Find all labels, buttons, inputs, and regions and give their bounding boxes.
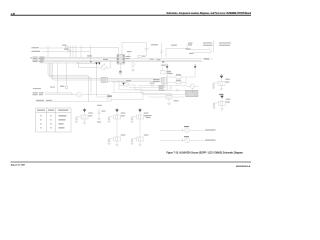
capacitor C4 cluster left of Q7 bbox=[97, 108, 100, 120]
power arrow A5 bbox=[90, 61, 91, 62]
bus D lines bbox=[45, 92, 72, 94]
footer rule bbox=[11, 161, 252, 163]
node stub vertical bbox=[186, 44, 188, 50]
jumper JU3 vertical bbox=[66, 63, 68, 86]
resistor R2 bbox=[167, 81, 186, 83]
transistor Q7 FET cell column1 top bbox=[107, 108, 125, 123]
transistor Q12 bbox=[36, 94, 144, 101]
svg-text:Schematics, Component Location: Schematics, Component Location Diagrams,… bbox=[166, 12, 251, 15]
power arrow A3 bbox=[166, 66, 169, 68]
page number 1-36 bbox=[11, 13, 16, 15]
wire row B bbox=[71, 51, 90, 53]
wire bus drop 4 bbox=[53, 63, 102, 80]
C5 labels bbox=[167, 71, 172, 74]
transistor Q1 bbox=[97, 61, 111, 70]
capacitor C9 on wire bbox=[177, 89, 179, 92]
off-page annotation text group 2 bbox=[219, 42, 231, 45]
header rule bbox=[11, 14, 252, 16]
footer date bbox=[11, 163, 27, 166]
resistor network RN1 hatch bbox=[101, 78, 108, 83]
wire crossing vertical v1 bbox=[70, 46, 72, 58]
verticals below J2 bbox=[166, 93, 168, 96]
LED row 1 bbox=[160, 128, 204, 133]
wire vertical x48 bbox=[47, 46, 49, 57]
label LED1 bbox=[205, 129, 216, 130]
connector P1 hatch right end of bus C bbox=[162, 78, 166, 85]
transistor Q10 FET cell column2 bottom bbox=[130, 135, 148, 147]
IC U1 label bbox=[126, 56, 131, 57]
off-page net labels bbox=[186, 43, 194, 54]
power arrow A4 bbox=[194, 66, 197, 68]
bus A lines left section bbox=[46, 56, 118, 58]
bus C right of RN1 bbox=[108, 78, 163, 80]
resistor labels text bbox=[153, 79, 160, 82]
label LED2 bbox=[205, 140, 216, 141]
wire LED2 left bbox=[160, 139, 185, 141]
LED row 2 bbox=[160, 138, 204, 143]
wire vertical x96.5 bbox=[96, 63, 98, 94]
transistor Q6 FET cell bottom left bbox=[75, 108, 93, 124]
ground G2 bbox=[131, 70, 135, 72]
labels below J2 bbox=[174, 100, 179, 101]
wire R1 to arrow A4 bbox=[186, 76, 195, 78]
capacitor C7 on wire bbox=[160, 86, 162, 89]
svg-text:6816533H01-A: 6816533H01-A bbox=[236, 165, 251, 168]
label right of Q8 bbox=[146, 115, 152, 116]
label smudge2 bbox=[171, 45, 177, 46]
resistor R5 small bbox=[138, 55, 146, 58]
wire vertical x119 bbox=[118, 80, 120, 90]
transistor Q3 bbox=[186, 84, 199, 91]
wire bus drop 1 bbox=[48, 63, 89, 102]
off-page annotation text group 1 bbox=[203, 42, 213, 45]
transistor Q2 mid bbox=[112, 82, 135, 87]
capacitor C6 on wire bbox=[152, 84, 154, 87]
Q12 label bbox=[107, 96, 112, 97]
wire below J2 bbox=[148, 96, 166, 98]
divider line bbox=[213, 41, 215, 53]
capacitor C2 bbox=[145, 43, 149, 57]
bus D labels bbox=[33, 92, 44, 95]
wire LED2 right bbox=[189, 139, 204, 141]
wire corner L2 bbox=[79, 62, 97, 68]
label left of arrow A3 bbox=[161, 65, 166, 66]
ground G1 bbox=[119, 74, 123, 76]
label JU2 bbox=[64, 49, 69, 50]
wire bus drop 5 bbox=[57, 63, 59, 93]
transistor Q8 FET cell column2 top bbox=[130, 108, 148, 123]
power arrow A2 bbox=[122, 83, 124, 85]
Q2 label bbox=[126, 80, 131, 81]
wire crossing vertical v3 bbox=[75, 46, 77, 58]
resistor R1 bbox=[167, 76, 186, 78]
transistor Q9 FET cell column1 bottom bbox=[107, 135, 125, 147]
figure caption bbox=[166, 151, 243, 154]
stray label left area bbox=[33, 88, 41, 89]
table data rows bbox=[40, 115, 66, 128]
wire crossing vertical v4 bbox=[80, 46, 82, 58]
svg-text:Figure 7-15: HLN6432A Secure (: Figure 7-15: HLN6432A Secure (EGPF / LED… bbox=[166, 151, 242, 154]
junction tick LED1 bbox=[181, 129, 183, 132]
bus A right end label bbox=[204, 58, 210, 59]
wire vertical x114 bbox=[113, 82, 115, 92]
bus A left labels bbox=[32, 47, 41, 52]
svg-text:August 24, 2007: August 24, 2007 bbox=[11, 163, 26, 166]
wire column2 down bbox=[139, 119, 141, 137]
wire LED1 left bbox=[160, 129, 185, 131]
label right of arrow A3 bbox=[169, 73, 173, 74]
table header text bbox=[37, 110, 69, 111]
transistor Q5 FET cell right second bbox=[212, 94, 230, 110]
diode D1 bbox=[132, 63, 135, 70]
stray label left area 2 bbox=[50, 87, 55, 88]
wire net stub row B bbox=[42, 51, 66, 53]
transistor Q11 bbox=[77, 92, 111, 97]
junction tick bbox=[71, 93, 73, 95]
jumper JU2 bbox=[67, 50, 71, 53]
wire into J2 second bbox=[112, 91, 143, 93]
wire crossing vertical v2 bbox=[72, 46, 74, 58]
wire corner L1 bbox=[77, 62, 97, 63]
capacitor C8 on wire bbox=[170, 86, 172, 89]
wire row A to IC bbox=[69, 47, 119, 49]
capacitor C1 polarized bbox=[119, 70, 122, 73]
transistor Q4 FET cell top right bbox=[212, 74, 230, 90]
wire crossing vertical v5 bbox=[90, 46, 92, 62]
wire bus drop 3 bbox=[51, 63, 101, 79]
label smudge near top of U1 bbox=[127, 51, 132, 52]
capacitor C5 box bbox=[161, 67, 166, 74]
junction tick LED2 bbox=[181, 139, 183, 142]
node dash left margin bbox=[30, 57, 32, 60]
wire right of R10 bbox=[172, 96, 184, 98]
wire LED1 right bbox=[189, 129, 204, 131]
J2 pin hatch bbox=[186, 90, 199, 97]
wire column1 down bbox=[116, 119, 118, 137]
wire top route to capacitor C2 bbox=[122, 42, 147, 44]
transistor Q13 bbox=[185, 128, 190, 133]
bus A entry ticks bbox=[41, 57, 45, 64]
ground G3 bbox=[167, 104, 171, 106]
footer part number bbox=[236, 165, 251, 168]
jumper JU1 bbox=[65, 46, 69, 49]
capacitor C3 bbox=[160, 43, 163, 58]
resistor pack R10 below J2 bbox=[166, 95, 172, 99]
label NU under Q4 bbox=[219, 94, 224, 95]
jumper JU3 label bbox=[60, 86, 65, 87]
row B end label bbox=[87, 55, 92, 56]
wire y85.3 bbox=[138, 84, 186, 86]
power arrow A6 bbox=[95, 62, 97, 64]
label C2 value bbox=[151, 44, 158, 45]
header title text bbox=[166, 12, 252, 15]
off-page net 2 bbox=[193, 50, 211, 52]
ground G4 bbox=[191, 91, 195, 93]
table TB1 bbox=[36, 108, 72, 132]
wire to off-page nets bbox=[166, 48, 187, 57]
power arrow A1 bbox=[98, 62, 100, 64]
wires Q2 fanout bbox=[129, 87, 166, 89]
cap cluster labels left bbox=[159, 86, 165, 91]
transistor Q14 bbox=[185, 138, 190, 143]
label near x157 bbox=[157, 59, 161, 60]
wire bus drop 2 bbox=[50, 63, 92, 95]
wire into J2 top bbox=[119, 89, 143, 91]
label JU1 bbox=[62, 45, 67, 46]
bus A right section bbox=[125, 58, 203, 60]
label above bus near x150 bbox=[150, 59, 155, 60]
off-page net 1 bbox=[187, 47, 210, 49]
wire label above Q12 line bbox=[36, 100, 52, 101]
IC U1 bbox=[117, 43, 125, 71]
wire net stub row A bbox=[40, 47, 64, 49]
long connector J2 body bbox=[143, 90, 186, 94]
junction J a bbox=[162, 61, 164, 62]
diode D2 below R10 bbox=[168, 99, 170, 103]
